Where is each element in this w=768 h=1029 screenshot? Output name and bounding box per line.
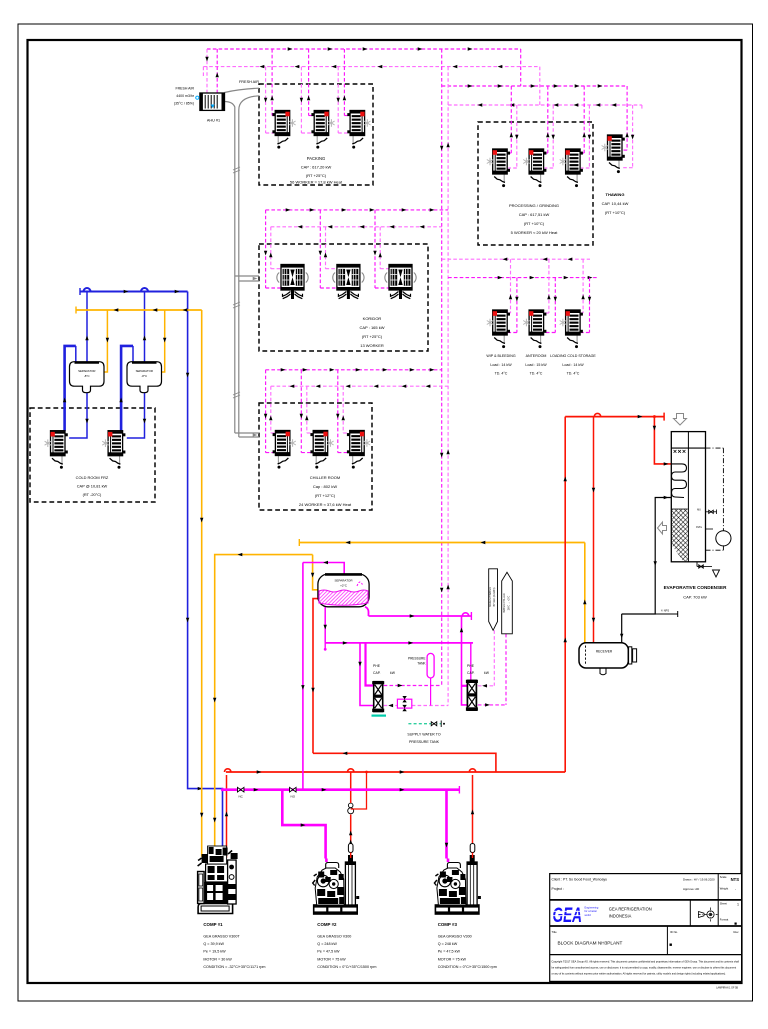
- NH3 dashed bus B top: [203, 66, 539, 68]
- make up water dashed to PHE2: [493, 630, 495, 686]
- right group unit drops: [510, 259, 512, 313]
- svg-text:CAP : 617,20 kW: CAP : 617,20 kW: [301, 165, 332, 170]
- svg-text:(RT +25°C): (RT +25°C): [362, 334, 383, 339]
- svg-text:-8°C: -8°C: [84, 374, 90, 378]
- CHILLER evaporator 3: [347, 431, 370, 469]
- svg-text:Pe = 19,5 kW: Pe = 19,5 kW: [203, 950, 226, 954]
- svg-text:SEPARATOR: SEPARATOR: [136, 369, 153, 373]
- CHILLER evaporator 2: [310, 431, 333, 469]
- THAWING unit drops: [626, 86, 628, 150]
- svg-text:PROCESSING / GRINDING: PROCESSING / GRINDING: [509, 203, 559, 208]
- red riser compressor2 with check valve: [350, 815, 352, 846]
- PHE1 top feed vertical: [366, 643, 374, 686]
- svg-text:Q = 248 kW: Q = 248 kW: [438, 942, 458, 946]
- condenser spray pump: [716, 531, 731, 546]
- svg-text:24 WORKER ≈ 37,6 kW Heat: 24 WORKER ≈ 37,6 kW Heat: [299, 502, 352, 507]
- svg-text:Drawn : HY / 19.06.2020: Drawn : HY / 19.06.2020: [683, 878, 715, 882]
- yellow drop into receiver: [584, 543, 586, 643]
- svg-text:CONDITION = 0°C/+35°C/1500 rpm: CONDITION = 0°C/+35°C/1500 rpm: [438, 965, 497, 969]
- svg-text:+2°C: +2°C: [340, 584, 348, 588]
- PHE 1: [372, 681, 384, 712]
- magenta liquid line L2 under separator: [325, 642, 473, 644]
- wet return riser compressor3: [445, 790, 448, 859]
- svg-text:Pe = 47,5 kW: Pe = 47,5 kW: [317, 950, 340, 954]
- THAWING evaporator: [602, 135, 625, 173]
- svg-text:56 WORKER ≈ 17,8 kW Heat: 56 WORKER ≈ 17,8 kW Heat: [290, 180, 343, 185]
- compressor 2 machine: [313, 855, 360, 914]
- thick suction evap2: [121, 346, 133, 431]
- separator1 riser to blue bus: [86, 292, 88, 362]
- red drop to receiver: [593, 417, 595, 643]
- svg-text:CAP. 703 kW: CAP. 703 kW: [683, 595, 707, 600]
- ANTEROOM evaporator: [523, 310, 546, 348]
- yellow feed into mid separator: [313, 555, 318, 590]
- svg-text:WATER CHILLER: WATER CHILLER: [503, 593, 506, 612]
- PHE1 feed vertical: [360, 643, 373, 706]
- yellow long line 1 to compressor: [202, 310, 212, 862]
- svg-text:TANK: TANK: [417, 662, 426, 666]
- svg-text:for a better: for a better: [585, 909, 598, 913]
- svg-text:TD. 4°C: TD. 4°C: [495, 372, 508, 376]
- room boundary COLD ROOM (dashed box): [30, 408, 155, 502]
- equalizer stub: [622, 613, 678, 615]
- svg-text:ANTEROOM: ANTEROOM: [526, 354, 547, 358]
- svg-text:Copyright ©2017 GEA Group AG: Copyright ©2017 GEA Group AG. All rights…: [552, 961, 740, 964]
- svg-text:PRESSURE TANK: PRESSURE TANK: [409, 740, 440, 744]
- yellow hot-gas bus: [76, 309, 202, 311]
- svg-text:TD. 4°C: TD. 4°C: [530, 372, 543, 376]
- condenser fill hatch: [672, 509, 688, 561]
- separator vessel 2: [127, 362, 162, 393]
- svg-text:FRESH AIR: FRESH AIR: [239, 80, 259, 84]
- PROCESSING evaporator 2: [523, 149, 546, 187]
- bus B left stub: [202, 67, 204, 76]
- svg-text:GEA GRASSO V300: GEA GRASSO V300: [317, 935, 351, 939]
- yellow liquid bus to receiver: [299, 542, 585, 544]
- KORIDOR unit 2: [333, 265, 364, 300]
- liquid line separator2 to cold room evap2: [127, 393, 145, 438]
- svg-text:COMP #2: COMP #2: [317, 922, 337, 927]
- magenta suction into compressor3: [447, 859, 450, 863]
- svg-text:THAWING: THAWING: [606, 192, 625, 197]
- CHILLER bus G: [266, 369, 442, 371]
- PACKING evaporator 1: [272, 111, 295, 149]
- AHU fresh air unit: [200, 93, 225, 110]
- svg-text:Q = 39,9 kW: Q = 39,9 kW: [203, 942, 224, 946]
- NH3 dashed bus C: [442, 85, 627, 87]
- svg-text:(RT +12°C): (RT +12°C): [315, 493, 336, 498]
- blue suction long line to compressor: [188, 292, 223, 858]
- svg-text:GEA GRASSO V300: GEA GRASSO V300: [438, 935, 472, 939]
- WIP evaporator: [487, 310, 510, 348]
- svg-text:SEPARATOR: SEPARATOR: [78, 369, 95, 373]
- condenser coil: [671, 464, 686, 498]
- duct stub to CHILLER ROOM: [235, 432, 259, 434]
- PROCESSING unit drops: [510, 86, 512, 153]
- svg-text:Load : 14 kW: Load : 14 kW: [562, 363, 584, 367]
- magenta suction into compressor2: [325, 859, 328, 863]
- compressor 3 machine: [434, 855, 481, 914]
- svg-text:5 WORKER ≈ 20 kW Heat: 5 WORKER ≈ 20 kW Heat: [511, 230, 559, 235]
- svg-text:TD. 4°C: TD. 4°C: [567, 372, 580, 376]
- svg-text:CAP @ 10,81 kW: CAP @ 10,81 kW: [77, 484, 108, 489]
- svg-text:CHILLER ROOM: CHILLER ROOM: [310, 475, 340, 480]
- yellow long line 2 from receiver bus: [215, 555, 313, 860]
- red drop into condenser coil: [653, 415, 656, 418]
- svg-text:PHE: PHE: [373, 664, 381, 668]
- svg-text:NTS: NTS: [731, 877, 740, 882]
- condenser air arrow side: [658, 522, 667, 534]
- PACKING evaporator 2: [311, 111, 334, 149]
- condenser spray header: [671, 447, 705, 449]
- svg-text:Pe = 47,5 kW: Pe = 47,5 kW: [438, 950, 461, 954]
- svg-text:Cap : 802 kW: Cap : 802 kW: [313, 484, 337, 489]
- NH3 dashed bus D: [448, 104, 642, 106]
- condensate line to receiver: [622, 498, 672, 615]
- svg-text:13 WORKER: 13 WORKER: [360, 343, 384, 348]
- wet return drop to compressor2: [282, 790, 325, 859]
- separator2 riser to blue bus: [144, 292, 146, 362]
- svg-text:Load : 15 kW: Load : 15 kW: [525, 363, 547, 367]
- compressor2 discharge bypass: [351, 772, 367, 809]
- muffler compressor2: [348, 844, 353, 853]
- condenser water circuit dash-dot: [706, 447, 724, 449]
- svg-text:INDONESIA: INDONESIA: [609, 914, 632, 919]
- PROCESSING evaporator 3: [560, 149, 583, 187]
- svg-text:CAP : 617,51 kW: CAP : 617,51 kW: [519, 212, 550, 217]
- KORIDOR unit 3: [385, 265, 416, 300]
- svg-text:1: 1: [737, 903, 739, 907]
- svg-text:kW: kW: [484, 671, 490, 675]
- PROCESSING evaporator 1: [487, 149, 510, 187]
- main dashed trunk right line: [447, 67, 449, 706]
- svg-text:Rev.: Rev.: [733, 930, 739, 934]
- svg-text:(RT +10°C): (RT +10°C): [605, 210, 626, 215]
- LOADING evaporator: [560, 310, 583, 348]
- condenser overflow stub: [706, 528, 714, 530]
- PACKING evaporator 3: [347, 111, 370, 149]
- svg-text:BY REF (2 m3/hr): BY REF (2 m3/hr): [493, 587, 496, 606]
- CHILLER bus H: [271, 385, 448, 387]
- svg-text:GEA REFRIGERATION: GEA REFRIGERATION: [609, 907, 652, 912]
- svg-text:CAP : 165 kW: CAP : 165 kW: [359, 325, 384, 330]
- red discharge bus: [226, 771, 565, 773]
- blue suction bus: [80, 291, 188, 293]
- right section bus E: [442, 258, 590, 260]
- magenta line into separator top: [303, 563, 344, 575]
- make up water flag: [489, 569, 498, 631]
- svg-text:(RT +25°C): (RT +25°C): [306, 173, 327, 178]
- svg-text:MU: MU: [697, 509, 701, 512]
- svg-text:CAP.: CAP.: [467, 671, 475, 675]
- svg-text:Engineering: Engineering: [585, 906, 599, 910]
- receiver vessel: [579, 643, 628, 668]
- room boundary PACKING (dashed box): [259, 84, 373, 185]
- svg-text:AHU #1: AHU #1: [207, 119, 220, 123]
- svg-text:(RT +10°C): (RT +10°C): [524, 221, 545, 226]
- condenser make-up stub: [706, 511, 717, 513]
- evaporative condenser body: [671, 432, 705, 562]
- bypass loop with valves: [397, 699, 411, 708]
- svg-text:GEA GRASSO V300T: GEA GRASSO V300T: [203, 935, 240, 939]
- separator vessel 1: [70, 362, 105, 393]
- red riser compressor3: [472, 775, 474, 843]
- yellow drop to separator1: [104, 310, 107, 372]
- svg-text:Format: Format: [720, 918, 729, 922]
- svg-text:PACKING: PACKING: [307, 156, 326, 161]
- svg-text:RECEIVER: RECEIVER: [596, 650, 613, 654]
- supply water green dashed: [408, 723, 441, 725]
- condenser air arrow top: [674, 414, 687, 426]
- svg-text:LOADING COLD STORAGE: LOADING COLD STORAGE: [550, 354, 596, 358]
- red top line to condenser: [565, 416, 664, 418]
- PHE1 dashed circuit to trunk: [384, 685, 442, 687]
- svg-text:kW: kW: [390, 671, 396, 675]
- svg-text:CONDITION = 0°C/+35°C/1500 rpm: CONDITION = 0°C/+35°C/1500 rpm: [317, 965, 376, 969]
- room boundary KORIDOR (dashed box): [259, 244, 428, 351]
- wet return suction bus with valves: [223, 788, 460, 791]
- thick suction evap1: [65, 346, 76, 431]
- right section bus F: [448, 277, 597, 279]
- svg-text:EVAPORATIVE CONDENSER: EVAPORATIVE CONDENSER: [664, 585, 728, 590]
- liquid line separator1 to cold room evap1: [69, 393, 87, 438]
- svg-text:COLD ROOM FRZ: COLD ROOM FRZ: [76, 475, 109, 480]
- svg-text:Title: Title: [552, 930, 558, 934]
- red upper horizontal: [313, 753, 496, 772]
- svg-text:be safeguarded from unauthoriz: be safeguarded from unauthorized access,…: [552, 967, 737, 970]
- svg-text:MOTOR = 75 kW: MOTOR = 75 kW: [438, 957, 467, 961]
- svg-text:Project :: Project :: [552, 887, 564, 891]
- svg-text:Client : PT. So Good Food_W: Client : PT. So Good Food_Wonoayu: [552, 878, 608, 882]
- magenta liquid line L1 from separator: [365, 607, 369, 616]
- condensate drop into receiver: [621, 614, 623, 643]
- riser to AHU left: [206, 49, 208, 93]
- svg-text:KORIDOR: KORIDOR: [363, 316, 382, 321]
- svg-text:Scale: Scale: [720, 875, 727, 879]
- CHILLER evaporator 1: [273, 431, 296, 469]
- svg-text:Sheet: Sheet: [720, 902, 727, 906]
- svg-text:PRESSURE: PRESSURE: [408, 657, 426, 661]
- COLD ROOM evaporator 1: [45, 431, 68, 469]
- svg-text:SEPARATOR: SEPARATOR: [334, 579, 353, 583]
- title block frame: [550, 874, 742, 982]
- KORIDOR unit 1: [277, 265, 308, 300]
- svg-text:-8°C: -8°C: [141, 374, 147, 378]
- svg-text:MOTOR = 30 kW: MOTOR = 30 kW: [203, 957, 232, 961]
- svg-text:PHE: PHE: [467, 664, 475, 668]
- svg-text:FRESH AIR: FRESH AIR: [176, 87, 195, 91]
- room boundary PROCESSING (dashed box): [478, 122, 593, 245]
- svg-text:Load : 14 kW: Load : 14 kW: [490, 363, 512, 367]
- pressure tank: [427, 653, 434, 678]
- PHE2 feed from L2: [470, 643, 472, 680]
- water chiller dashed from PHE2: [505, 634, 507, 705]
- water chiller flag: [502, 572, 513, 634]
- svg-text:ID No.: ID No.: [670, 930, 678, 934]
- compressor 1 machine: [198, 846, 238, 914]
- red riser compressor1: [226, 775, 228, 858]
- svg-text:NO: NO: [291, 795, 296, 799]
- PHE2 feed vertical: [462, 616, 467, 705]
- svg-text:COMP #3: COMP #3: [438, 922, 458, 927]
- svg-text:4400 m3/hr: 4400 m3/hr: [176, 94, 195, 98]
- svg-text:Weight: Weight: [720, 887, 729, 891]
- svg-text:(RT -20°C): (RT -20°C): [83, 492, 102, 497]
- mid separator vessel: [318, 574, 369, 607]
- red riser to condenser: [564, 417, 566, 772]
- svg-text:world: world: [585, 913, 592, 917]
- COLD ROOM evaporator 2: [102, 431, 125, 469]
- projection symbol: [707, 911, 714, 918]
- fresh air duct: [225, 88, 260, 92]
- main dashed trunk left line: [441, 49, 443, 686]
- svg-text:26°C → +2°C: 26°C → +2°C: [507, 595, 510, 610]
- PHE 2: [466, 680, 478, 711]
- duct stub to KORIDOR: [235, 275, 259, 277]
- svg-text:Approve: AD: Approve: AD: [683, 887, 699, 891]
- KORIDOR bus upper: [266, 209, 449, 211]
- svg-text:WIP & BLEEDING: WIP & BLEEDING: [486, 354, 515, 358]
- svg-text:COMP #1: COMP #1: [203, 922, 223, 927]
- pressure tank drop: [430, 678, 432, 706]
- svg-text:or any of its contents without: or any of its contents without express p…: [552, 973, 727, 976]
- separator bottom drain to L2: [324, 607, 326, 643]
- svg-text:(35°C / 85%): (35°C / 85%): [174, 102, 194, 106]
- svg-text:MOTOR = 75 kW: MOTOR = 75 kW: [317, 957, 346, 961]
- svg-text:LAMPIRAN 1 OF 5B: LAMPIRAN 1 OF 5B: [716, 987, 738, 990]
- magenta drop to suction bus: [302, 563, 304, 790]
- red hot gas from mid separator: [313, 599, 318, 754]
- muffler compressor3: [470, 844, 475, 853]
- bus A elbow down to bus C: [520, 49, 522, 86]
- svg-text:Q = 248 kW: Q = 248 kW: [317, 942, 337, 946]
- svg-text:SUPPLY WATER TO: SUPPLY WATER TO: [407, 733, 440, 737]
- PACKING unit drops: [265, 67, 267, 133]
- bus B elbow down to bus D: [539, 67, 541, 105]
- NH3 dashed bus A top: [207, 48, 521, 50]
- CHILLER unit drops: [265, 370, 267, 453]
- condenser drain: [696, 562, 698, 567]
- svg-text:-: -: [735, 888, 736, 892]
- svg-text:CAP. 10,44 kW: CAP. 10,44 kW: [602, 201, 629, 206]
- riser to AHU right: [216, 49, 218, 93]
- svg-text:¼ NPS: ¼ NPS: [661, 609, 669, 613]
- svg-text:CAP.: CAP.: [373, 671, 381, 675]
- svg-text:MAKE UP WATER: MAKE UP WATER: [489, 587, 492, 607]
- KORIDOR unit drops: [265, 210, 267, 288]
- svg-text:CONDITION = -32°C/+35°C/1171 r: CONDITION = -32°C/+35°C/1171 rpm: [203, 965, 265, 969]
- svg-text:OVFL: OVFL: [696, 526, 703, 529]
- svg-text:BLOCK DIAGRAM NH3PLANT: BLOCK DIAGRAM NH3PLANT: [558, 941, 623, 946]
- KORIDOR bus lower: [271, 226, 442, 228]
- yellow drop to separator2: [161, 310, 164, 372]
- room boundary CHILLER ROOM (dashed box): [259, 403, 372, 510]
